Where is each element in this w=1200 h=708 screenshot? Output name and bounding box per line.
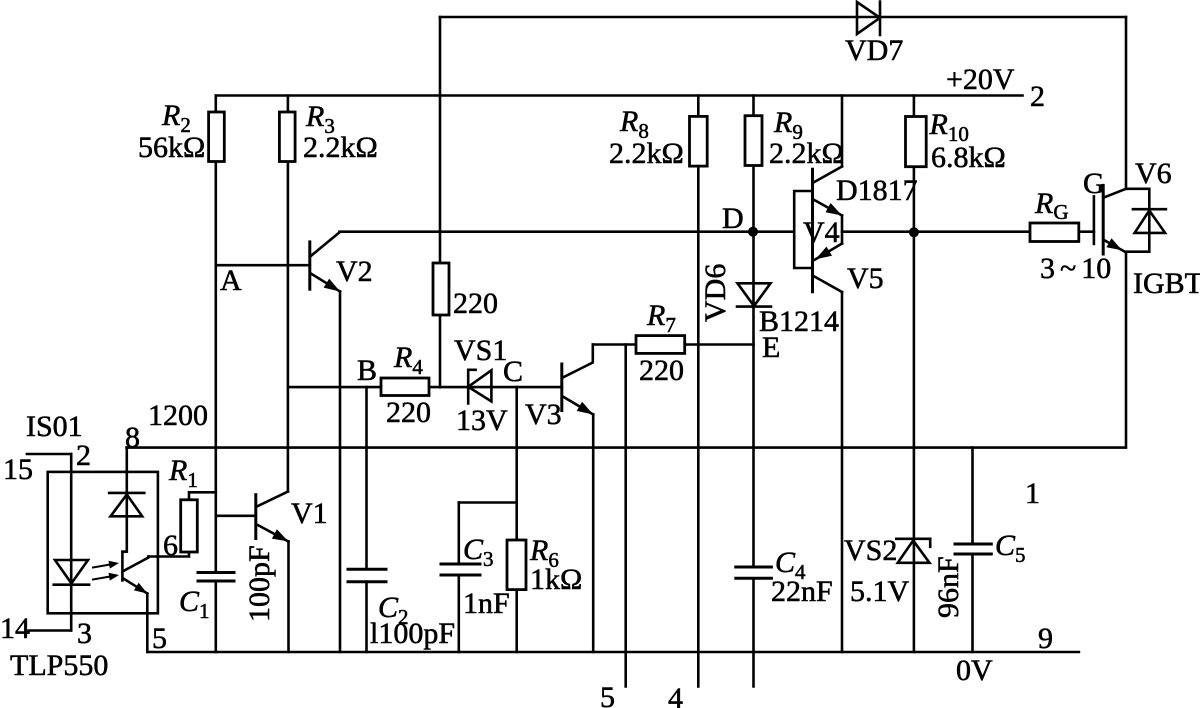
svg-text:2.2kΩ: 2.2kΩ: [769, 137, 844, 170]
capacitor C2 plates: [348, 569, 386, 582]
svg-text:1200: 1200: [148, 399, 208, 432]
wire pin 14 stub: [29, 629, 72, 632]
wire RG to IGBT gate: [1079, 230, 1094, 233]
wire pin 6 row: [149, 552, 190, 557]
transistor V1 collector: [257, 492, 288, 507]
diode VD6: [737, 283, 771, 306]
svg-text:8: 8: [125, 421, 140, 454]
capacitor C4 plates: [736, 567, 772, 578]
IGBT V6 body bar: [1102, 185, 1105, 254]
svg-text:6: 6: [163, 529, 178, 562]
wire module boundary row pin 8: [127, 446, 1125, 449]
wire output row emitters to RG: [842, 230, 1030, 233]
transistor V1 base bar: [254, 495, 257, 539]
diode VD7: [857, 2, 880, 36]
wire TLP pin2 LED anode column: [70, 454, 73, 560]
zener VS2: [896, 539, 930, 563]
svg-text:3: 3: [77, 617, 92, 650]
wire V4 collector stub: [841, 96, 844, 167]
resistor R6 body: [507, 540, 526, 590]
svg-text:5.1V: 5.1V: [850, 575, 910, 608]
svg-text:VD6: VD6: [699, 264, 732, 322]
svg-text:2: 2: [1030, 80, 1045, 113]
svg-text:V3: V3: [525, 398, 562, 431]
resistor 220 body (V2 branch): [433, 263, 449, 315]
resistor RG body: [1030, 223, 1079, 242]
svg-text:RG: RG: [1034, 187, 1069, 224]
svg-text:R7: R7: [646, 299, 676, 337]
transistor V3 base bar: [560, 364, 563, 411]
node D junction dot: [748, 227, 758, 237]
wire 0V bottom rail: [148, 651, 1079, 654]
wire pin 15 stub: [27, 453, 71, 456]
svg-text:15: 15: [3, 453, 33, 486]
optocoupler IS01 TLP550 package box: [48, 472, 158, 613]
IGBT V6 emitter with arrow: [1104, 240, 1126, 252]
capacitor C1 plates: [198, 573, 234, 582]
phototransistor emitter with arrow: [123, 579, 147, 594]
svg-text:TLP550: TLP550: [10, 649, 108, 682]
svg-text:1: 1: [1025, 477, 1040, 510]
wire C5 column: [971, 448, 974, 652]
svg-text:1kΩ: 1kΩ: [530, 563, 582, 596]
wire node C row VS1 to V3 base: [468, 386, 562, 389]
svg-text:R1: R1: [168, 454, 198, 492]
wire V1 emitter column: [287, 542, 290, 653]
resistor R8 body: [690, 116, 708, 166]
svg-text:220: 220: [386, 396, 431, 429]
wire node B to C2 column: [365, 387, 368, 652]
transistor V3 emitter with arrow: [563, 397, 593, 415]
svg-text:9: 9: [1038, 622, 1053, 655]
svg-text:14: 14: [0, 612, 30, 645]
wire V3 collector to R7: [593, 343, 636, 346]
svg-text:A: A: [220, 264, 242, 297]
resistor R4 body: [381, 378, 429, 396]
svg-text:6.8kΩ: 6.8kΩ: [931, 141, 1006, 174]
svg-text:C1: C1: [179, 585, 210, 623]
transistor V5 collector: [814, 276, 843, 292]
svg-text:220: 220: [453, 287, 498, 320]
wire R2 C1 column: [215, 96, 218, 653]
IGBT V6 gate bar: [1093, 196, 1096, 244]
resistor R7 body: [636, 336, 685, 354]
transistor V2 emitter with arrow: [311, 274, 340, 292]
svg-text:IS01: IS01: [26, 410, 83, 443]
svg-text:5: 5: [600, 681, 615, 708]
svg-text:56kΩ: 56kΩ: [138, 131, 205, 164]
transistor V1 base wire: [216, 514, 256, 517]
resistor R3 body: [279, 112, 295, 162]
wire +20V rail: [216, 94, 1023, 97]
wire R10 VS2 column: [913, 96, 916, 653]
svg-text:100pF: 100pF: [243, 545, 276, 622]
wire C3 column: [457, 503, 460, 653]
svg-text:V2: V2: [336, 255, 373, 288]
svg-text:4: 4: [668, 682, 683, 708]
svg-text:VS1: VS1: [454, 334, 507, 367]
svg-text:C5: C5: [995, 529, 1026, 567]
transistor V2 collector: [311, 232, 340, 256]
wire R8 pin 4 column: [697, 96, 700, 687]
transistor V5 emitter with arrow pointing to bar: [814, 244, 843, 261]
wire R3 V1-collector column: [287, 96, 290, 492]
svg-text:96nF: 96nF: [932, 556, 965, 618]
svg-text:2.2kΩ: 2.2kΩ: [303, 131, 378, 164]
svg-text:22nF: 22nF: [771, 575, 833, 608]
resistor R9 body: [745, 116, 762, 166]
wire V3 emitter column: [592, 415, 595, 653]
capacitor C5 plates: [955, 544, 991, 554]
transistor V3 collector: [563, 345, 593, 378]
wire R4 to VS1: [429, 386, 468, 389]
svg-text:B: B: [357, 354, 377, 387]
svg-text:VS2: VS2: [844, 534, 897, 567]
phototransistor base bar: [121, 552, 124, 581]
wire top rail from VD7 branch: [440, 16, 1126, 19]
transistor V2 base bar: [308, 242, 311, 289]
svg-text:13V: 13V: [456, 404, 508, 437]
resistor R10 body: [906, 117, 927, 167]
wire node B row: [288, 386, 381, 389]
node RG junction dot: [909, 227, 919, 237]
svg-text:V6: V6: [1135, 157, 1172, 190]
wire R7 to node E: [685, 343, 754, 346]
capacitor C3 plates: [441, 564, 480, 575]
svg-text:l100pF: l100pF: [370, 617, 455, 650]
wire V5 collector column: [841, 292, 844, 652]
V4 V5 base bracket: [794, 191, 812, 268]
svg-text:V1: V1: [291, 497, 328, 530]
wire R7 left to pin 5 stub: [624, 345, 627, 687]
wire IGBT collector column: [1125, 17, 1128, 189]
resistor R1 body: [181, 500, 198, 552]
svg-text:5: 5: [152, 622, 167, 655]
svg-text:R4: R4: [393, 341, 423, 379]
IGBT V6 collector: [1104, 189, 1126, 198]
wire node C R6 column: [515, 387, 518, 652]
transistors V4 V5 common base bar: [811, 169, 814, 292]
svg-text:1nF: 1nF: [463, 587, 510, 620]
transistor V4 emitter with arrow: [814, 200, 843, 216]
transistor V4 collector: [814, 167, 843, 183]
svg-text:220: 220: [639, 354, 684, 387]
wire IGBT emitter column: [1125, 252, 1128, 447]
wire R9 VD6 C4 column: [752, 96, 755, 687]
phototransistor collector: [123, 557, 148, 572]
wire V4 V5 emitter junction column: [841, 216, 844, 244]
svg-text:G: G: [1083, 167, 1105, 200]
transistor V1 emitter with arrow: [257, 525, 289, 542]
svg-text:3~10: 3~10: [1040, 252, 1111, 285]
wire TLP pin8 diode column: [122, 448, 126, 552]
svg-text:C3: C3: [463, 533, 494, 571]
wire node A row: [216, 264, 310, 267]
svg-text:D: D: [722, 202, 744, 235]
wire V2 emitter column: [339, 292, 342, 653]
svg-text:2: 2: [76, 439, 91, 472]
wire R1 top to node A column: [189, 492, 216, 500]
svg-text:D1817: D1817: [836, 174, 918, 207]
resistor R2 body: [209, 112, 225, 162]
svg-text:+20V: +20V: [946, 63, 1015, 96]
wire TLP pin3 LED cathode column: [70, 585, 73, 631]
svg-text:0V: 0V: [956, 654, 993, 687]
svg-text:C: C: [503, 355, 523, 388]
freewheel diode at V6: [1126, 189, 1166, 252]
wire top branch to 220 resistor and node B: [439, 17, 442, 387]
photo arrows inside TLP550: [93, 564, 112, 579]
svg-text:2.2kΩ: 2.2kΩ: [609, 137, 684, 170]
wire C3 top bracket: [459, 501, 517, 504]
diode inside TLP550 (base-collector): [109, 493, 144, 516]
svg-text:V4: V4: [803, 216, 840, 249]
svg-text:V5: V5: [847, 262, 884, 295]
svg-text:VD7: VD7: [845, 34, 903, 67]
wire D row V2 collector to V4 base: [340, 230, 795, 233]
LED inside TLP550: [54, 560, 89, 585]
svg-text:IGBT: IGBT: [1133, 267, 1200, 300]
zener VS1: [468, 370, 491, 404]
wire opto emitter column to 0V: [146, 594, 149, 653]
svg-text:E: E: [762, 331, 780, 364]
